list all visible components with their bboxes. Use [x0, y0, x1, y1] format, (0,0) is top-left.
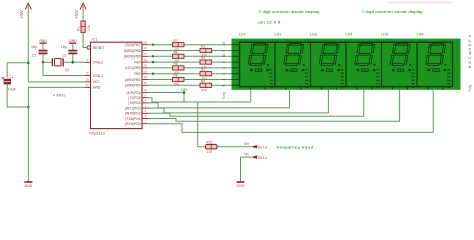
wire PB7 segment net	[148, 44, 173, 46]
svg-text:(ICP)PD6: (ICP)PD6	[126, 91, 140, 95]
wire GND feed	[28, 87, 85, 182]
digit LD3 side pin dashes	[341, 70, 344, 88]
svg-text:R1: R1	[77, 27, 81, 31]
svg-text:(INT1)PD3: (INT1)PD3	[125, 106, 141, 110]
node GND branch junction	[27, 106, 30, 109]
pin PD1	[142, 118, 148, 120]
op-amp U1 : microcontroller IC1 Tiny2313 body	[89, 37, 142, 136]
svg-text:pin 12 9 8: pin 12 9 8	[258, 20, 280, 25]
svg-text:6: 6	[222, 84, 226, 86]
wire VCC feed	[28, 81, 85, 83]
svg-text:16: 16	[144, 58, 148, 62]
svg-text:220: 220	[181, 87, 188, 92]
wire XTAL1 link	[42, 62, 44, 75]
svg-text:20: 20	[86, 78, 90, 82]
digit LD2 bottom stubs	[285, 87, 287, 90]
svg-text:7seg: 7seg	[222, 92, 226, 99]
svg-text:E: E	[468, 44, 472, 46]
svg-text:(T1)PD5: (T1)PD5	[128, 96, 141, 100]
resistor R2 470	[173, 39, 185, 52]
digit LD2 bottom pin marks	[286, 69, 305, 72]
svg-text:(AIN1)PB1: (AIN1)PB1	[125, 78, 141, 82]
pin PD6	[142, 92, 148, 94]
digit LD5 side pin dashes	[412, 70, 415, 88]
svg-text:5: 5	[222, 50, 226, 52]
display left edge pin stubs	[232, 45, 240, 86]
wire R1 to RESET	[83, 32, 87, 47]
svg-text:1: 1	[222, 67, 226, 69]
resistor R4 470	[173, 50, 185, 63]
svg-text:F: F	[468, 40, 472, 42]
pin RESET bubble pin1	[87, 46, 90, 49]
wire C2 upper lead	[42, 43, 44, 50]
wire SV1-1 to ground	[241, 157, 252, 182]
svg-text:GND: GND	[93, 86, 101, 90]
digit LD3 bottom pin marks	[321, 69, 340, 72]
svg-text:470: 470	[201, 89, 207, 93]
wire PD3 to digit 3 common	[148, 90, 328, 113]
pin PB2	[142, 73, 148, 75]
svg-text:R6: R6	[174, 62, 178, 66]
pin PB1	[142, 79, 148, 81]
svg-text:(OC1)PB3: (OC1)PB3	[125, 66, 140, 70]
svg-text:SV1-2: SV1-2	[258, 146, 268, 150]
pin PB6	[142, 50, 148, 52]
svg-text:12: 12	[144, 81, 148, 85]
wire branch to C1	[7, 63, 28, 78]
svg-text:7seg: 7seg	[468, 85, 472, 92]
wire R10 to SV1-2	[217, 146, 251, 148]
node PB junction dots	[152, 44, 154, 46]
capacitor C3 18p	[61, 45, 78, 57]
wire C3 lower lead	[72, 54, 74, 63]
svg-text:C2: C2	[32, 53, 37, 57]
svg-text:PB2: PB2	[134, 72, 140, 76]
digit LD1 bottom stubs	[249, 87, 251, 90]
wire C2 lower lead	[42, 54, 44, 63]
pin PD5	[142, 97, 148, 99]
svg-text:R10: R10	[206, 140, 212, 144]
wire C1 lower lead	[7, 84, 28, 107]
supply +5V arrow P1	[19, 3, 32, 18]
svg-text:10k: 10k	[87, 25, 91, 31]
svg-text:100: 100	[207, 150, 213, 154]
resistor R10 100	[206, 140, 218, 154]
svg-text:10: 10	[86, 83, 90, 87]
wire C3 upper lead	[72, 43, 74, 50]
svg-text:C3: C3	[62, 53, 67, 57]
svg-text:Vin: Vin	[244, 142, 249, 146]
svg-text:14: 14	[144, 69, 148, 73]
pin PD2	[142, 112, 148, 114]
ground GND1	[24, 182, 32, 188]
crystal Q1 4MHz	[52, 58, 69, 72]
svg-text:R2: R2	[174, 39, 178, 43]
svg-text:Vin: Vin	[244, 152, 249, 156]
wire PB5 segment net	[148, 55, 173, 57]
wire XTAL2 rail	[43, 61, 52, 63]
svg-text:PB4: PB4	[134, 60, 140, 64]
svg-text:GND: GND	[24, 184, 32, 188]
svg-text:11: 11	[144, 88, 147, 92]
digit LD5 bottom stubs	[391, 87, 393, 90]
wire PB6 segment net	[148, 50, 200, 52]
wire +5V to R1	[82, 6, 84, 22]
svg-text:18: 18	[144, 46, 148, 50]
pin labels left side	[93, 46, 106, 90]
capacitor C1 electrolytic 10uF	[2, 75, 17, 91]
pin PD3	[142, 107, 148, 109]
svg-text:LD6: LD6	[417, 33, 424, 37]
svg-text:GND: GND	[69, 39, 77, 43]
svg-text:XTAL1: XTAL1	[93, 74, 103, 78]
resistor R9 470	[200, 79, 212, 92]
wire PB4 segment net	[148, 61, 200, 63]
wire PB3 segment net	[148, 67, 173, 69]
svg-text:GND: GND	[39, 39, 47, 43]
wire PB0 segment net	[148, 84, 200, 86]
display inner frame	[240, 42, 453, 86]
supply +5V arrow P2	[74, 3, 86, 18]
svg-text:470: 470	[174, 83, 180, 87]
pin PB3	[142, 67, 148, 69]
svg-text:frequency input: frequency input	[276, 144, 314, 149]
svg-text:R7: R7	[201, 68, 205, 72]
svg-text:(AIN0)PB0: (AIN0)PB0	[125, 84, 141, 88]
svg-text:13: 13	[222, 42, 226, 46]
wire PB2 segment net	[148, 73, 200, 75]
resistor R8 470	[173, 74, 185, 87]
svg-text:C1: C1	[9, 75, 14, 79]
svg-text:LD1: LD1	[239, 33, 246, 37]
svg-text:Q1: Q1	[65, 68, 70, 72]
svg-text:(INT0)PD2: (INT0)PD2	[125, 112, 141, 116]
pin VCC stub	[85, 81, 91, 83]
svg-text:9: 9	[222, 61, 226, 63]
ground GND3 above C3	[69, 39, 77, 43]
svg-text:SV1-1: SV1-1	[258, 156, 268, 160]
wire PD2 to digit 4 common	[148, 90, 364, 116]
pin XTAL2 stub	[85, 61, 91, 63]
svg-text:(MOSI)PB5: (MOSI)PB5	[124, 55, 141, 59]
svg-text:15: 15	[144, 64, 148, 68]
digit LD1 bottom pin marks	[250, 69, 269, 72]
svg-text:2: 2	[222, 73, 226, 75]
resistor R5 470	[200, 56, 212, 69]
svg-text:dp: dp	[468, 51, 472, 55]
digit LD2 side pin dashes	[305, 70, 308, 88]
svg-text:LD3: LD3	[310, 33, 317, 37]
svg-text:LD5: LD5	[381, 33, 388, 37]
svg-text:4: 4	[222, 79, 226, 81]
svg-text:GND: GND	[237, 184, 245, 188]
digit LD4 bottom pin marks	[357, 69, 376, 72]
svg-text:R4: R4	[174, 50, 178, 54]
wire PD1 to digit 5 common	[148, 90, 400, 122]
svg-text:18p: 18p	[31, 45, 37, 49]
capacitor C2 18p	[31, 45, 48, 57]
resistor R7 470	[200, 68, 212, 81]
pin SV1-2	[244, 142, 267, 150]
svg-text:17: 17	[144, 52, 148, 56]
node +5V junction	[27, 62, 30, 65]
svg-text:R5: R5	[201, 56, 205, 60]
svg-text:(MISO)PB6: (MISO)PB6	[124, 49, 141, 53]
svg-text:+5V: +5V	[74, 9, 80, 18]
display digit LD6	[426, 43, 446, 65]
pin XTAL1 stub	[85, 75, 91, 77]
svg-text:R9: R9	[201, 79, 205, 83]
pin PB4	[142, 61, 148, 63]
wire PB1 segment net	[148, 79, 173, 81]
display digit LD5	[390, 43, 410, 65]
digit LD5 bottom pin marks	[392, 69, 411, 72]
pin PB0	[142, 84, 148, 86]
digit LD4 side pin dashes	[376, 70, 379, 88]
svg-text:R8: R8	[174, 74, 178, 78]
digit LD6 side pin dashes	[447, 70, 450, 88]
svg-text:10uF: 10uF	[8, 88, 17, 92]
pin PD4	[142, 102, 148, 104]
svg-text:2 digit common anode display: 2 digit common anode display	[257, 9, 319, 14]
svg-text:19: 19	[144, 40, 148, 44]
svg-text:(TXD)PD1: (TXD)PD1	[125, 117, 140, 121]
svg-text:RESET: RESET	[93, 46, 106, 50]
ground GND4	[237, 182, 245, 188]
svg-text:(T0)PD4: (T0)PD4	[128, 101, 141, 105]
svg-text:IC1: IC1	[92, 37, 98, 42]
pin PD0	[142, 123, 148, 125]
svg-text:(RXD)PD0: (RXD)PD0	[125, 122, 141, 126]
display digit LD2	[284, 43, 304, 65]
resistor R3 470	[200, 45, 212, 58]
svg-text:+5V: +5V	[19, 9, 25, 18]
wire +5V vertical	[27, 6, 29, 82]
svg-text:B: B	[468, 66, 472, 68]
digit LD4 bottom stubs	[356, 87, 358, 90]
svg-text:LD4: LD4	[346, 33, 353, 37]
pin SV1-1	[244, 152, 267, 160]
svg-text:13: 13	[144, 75, 148, 79]
digit LD6 bottom pin marks	[428, 69, 447, 72]
ground GND2 above C2	[39, 39, 47, 43]
svg-text:R3: R3	[201, 45, 205, 49]
svg-text:(SCK)PB7: (SCK)PB7	[125, 43, 140, 47]
display digit LD1	[248, 43, 268, 65]
wire PD0 to digit 6 common	[148, 90, 433, 133]
digit LD3 bottom stubs	[320, 87, 322, 90]
digit LD6 bottom stubs	[427, 87, 429, 90]
pin PB5	[142, 55, 148, 57]
svg-text:LD2: LD2	[275, 33, 282, 37]
wire PD4 to digit 2 common	[148, 90, 290, 108]
display module green pad	[232, 39, 461, 90]
wire PD5 to digit 1 common	[148, 90, 251, 102]
display digit LD3	[319, 43, 339, 65]
svg-text:Tiny2313: Tiny2313	[89, 131, 105, 136]
svg-text:4 MHz: 4 MHz	[53, 93, 66, 98]
resistor R6 470	[173, 62, 185, 75]
resistor R1 10k	[77, 21, 91, 32]
display digit LD4	[355, 43, 375, 65]
node A crystal left	[42, 61, 45, 64]
node B crystal right	[72, 61, 75, 64]
svg-text:2 digit common anode display: 2 digit common anode display	[360, 9, 422, 14]
screenshot artifact band	[387, 1, 453, 3]
svg-text:10: 10	[222, 54, 226, 58]
pin PB7	[142, 44, 148, 46]
svg-text:18p: 18p	[61, 45, 67, 49]
svg-text:VCC: VCC	[93, 80, 101, 84]
pin GND stub	[85, 86, 91, 88]
digit LD1 side pin dashes	[270, 70, 273, 88]
svg-text:XTAL2: XTAL2	[93, 61, 103, 65]
wire PD6 frequency input net	[148, 93, 206, 147]
display cell dividers	[274, 42, 276, 86]
node PD6 corner junction	[183, 91, 186, 94]
wire XTAL1 rail	[43, 75, 85, 77]
